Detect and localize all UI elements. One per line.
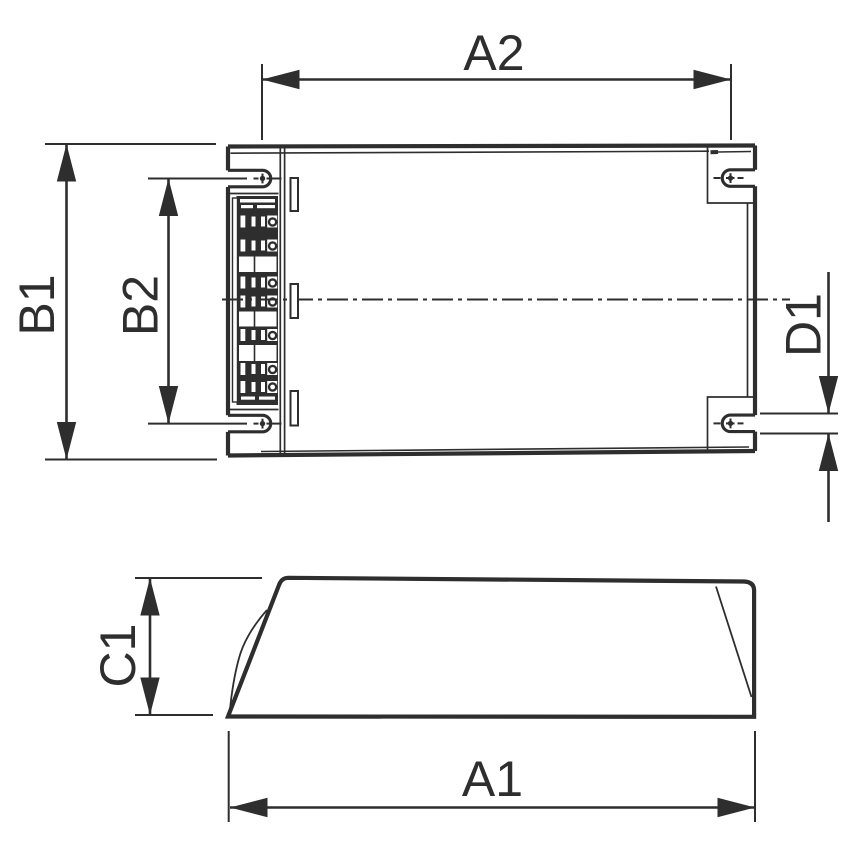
dimension line D1 lower	[827, 434, 830, 523]
wire right edge middle	[753, 186, 757, 415]
centre dot top-right slot	[728, 175, 733, 180]
svg-text:B1: B1	[9, 274, 65, 335]
dimension B2	[113, 179, 282, 424]
arrow A2 left	[262, 70, 300, 89]
terminal separator divider lines	[254, 257, 256, 362]
dimension line C1	[149, 578, 152, 715]
dimension C1	[90, 578, 262, 715]
crosshair top-right slot	[730, 173, 732, 183]
extension line C1 bottom	[135, 714, 213, 716]
dimension A1	[229, 731, 755, 822]
slot block bottom-left top line	[228, 409, 279, 411]
arrow B2 top	[159, 179, 178, 217]
extension line B2 top dashes through slot	[254, 178, 259, 180]
wire top edge	[228, 146, 755, 147]
centre dashes top-right slot	[714, 177, 721, 179]
terminal cells	[241, 216, 278, 394]
dimension line A1	[230, 806, 755, 809]
svg-text:A2: A2	[463, 25, 524, 81]
dimension D1	[760, 272, 838, 522]
centre line (dash-dot)	[222, 299, 790, 301]
inner vertical line left B	[284, 147, 286, 455]
centre dot bottom-left slot	[260, 421, 265, 426]
centre dashes bottom-right slot	[714, 422, 721, 424]
slot block top-left bottom line	[228, 193, 279, 195]
wire left edge lower	[226, 432, 230, 456]
chamfer line right	[716, 587, 752, 698]
arrow B2 bottom	[159, 386, 178, 424]
arrow A1 left	[230, 798, 268, 817]
inner vertical line left A	[279, 147, 281, 455]
mounting slot bottom-left	[228, 415, 271, 432]
lid lip tick top right	[711, 150, 719, 154]
extension line B2 bottom	[148, 423, 247, 425]
arrow D1 upper	[819, 376, 838, 414]
wire left edge middle	[226, 187, 230, 415]
crosshair top-left slot	[262, 174, 264, 184]
crosshair bottom-right slot	[730, 419, 732, 429]
arrow B1 bottom	[57, 422, 76, 460]
tab lower	[291, 391, 299, 426]
dimension line A2	[262, 78, 731, 81]
wire right edge upper	[753, 146, 757, 170]
terminal wire-entry slots	[241, 216, 278, 394]
lid lip line top	[231, 151, 710, 153]
wire right edge lower	[753, 432, 757, 451]
extension line D1 top	[760, 413, 838, 415]
dimension line D1 upper	[827, 272, 830, 414]
arrow D1 lower	[819, 434, 838, 472]
svg-text:A1: A1	[462, 751, 523, 807]
extension line C1 top	[135, 577, 262, 579]
dimension line B1	[65, 144, 68, 460]
tab centre	[291, 284, 299, 318]
extension line A1 right	[754, 731, 756, 822]
arrow A2 right	[694, 70, 732, 89]
extension line B2 top	[148, 178, 247, 180]
extension line A1 left	[228, 731, 230, 822]
side view body	[228, 578, 754, 717]
curved moulding edge left	[230, 610, 267, 711]
dimension line B2	[167, 179, 170, 424]
terminal separators (white gaps)	[239, 257, 277, 362]
terminal block column	[233, 196, 279, 405]
wire left edge upper	[226, 147, 230, 171]
mounting slot top-right	[722, 170, 755, 187]
wire side view outline	[228, 578, 754, 717]
arrow B1 top	[57, 144, 76, 182]
extension line A2 left	[261, 64, 263, 140]
slot block bottom-right boundary	[708, 397, 754, 452]
mounting slot top-left	[228, 170, 271, 187]
lid lip line top right segment	[718, 151, 752, 154]
lid lip line bottom	[261, 447, 749, 452]
terminal header stripes	[240, 199, 275, 208]
dimension B1	[9, 144, 217, 460]
arrow C1 top	[140, 578, 159, 616]
terminal block body	[237, 196, 279, 405]
left white strip of terminal column	[233, 198, 238, 402]
fixing tabs right of terminal column	[291, 178, 299, 426]
extension line B2 bottom dashes through slot	[254, 423, 259, 425]
slot block top-right boundary	[708, 148, 754, 204]
centre dot top-left slot	[260, 176, 265, 181]
svg-text:C1: C1	[90, 624, 146, 688]
terminal footer stripes	[241, 397, 275, 400]
svg-text:B2: B2	[113, 275, 169, 336]
wire bottom edge	[228, 451, 755, 456]
extension line D1 bottom	[760, 433, 838, 435]
mounting slot bottom-right	[722, 415, 755, 432]
arrow C1 bottom	[140, 678, 159, 716]
tab upper	[291, 178, 299, 211]
terminal screw centres	[270, 220, 275, 390]
extension line B1 top	[45, 143, 216, 145]
centre dot bottom-right slot	[728, 421, 733, 426]
svg-text:D1: D1	[776, 293, 832, 357]
dimension A2	[262, 25, 731, 140]
crosshair bottom-left slot	[262, 419, 264, 429]
inner vertical line right	[747, 203, 749, 397]
terminal screw rings	[268, 217, 278, 392]
mounting-slot centre marks	[263, 173, 744, 428]
arrow A1 right	[718, 798, 756, 817]
extension line B1 bottom	[45, 459, 217, 461]
top view housing outline	[228, 146, 755, 456]
extension line A2 right	[730, 64, 732, 140]
